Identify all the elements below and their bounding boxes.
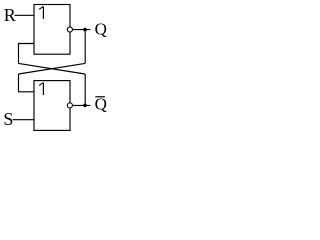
wire crossover diagonal Q to U2 input [19,63,86,74]
svg-text:Q: Q [95,19,107,38]
svg-text:Q: Q [95,95,107,114]
Q-bar overline [95,96,105,98]
node QB junction dot [83,104,87,108]
gate U2 label "1" [39,83,43,96]
node Q junction dot [83,28,87,32]
output bubble U2 [67,103,72,108]
NAND gate U2 (bottom) body [34,81,70,131]
gate U1 label "1" [39,6,43,19]
wire U1 output to Q [73,29,91,31]
wire down-left to U2 upper input [19,74,35,92]
wire S to U2 lower input [13,119,34,121]
NAND gate U1 (top) body [34,5,70,55]
wire node Q down to crossover [84,30,86,64]
wire U1 lower input (from node QB) [19,44,35,64]
output bubble U1 [67,27,72,32]
wire down-right from crossover to node QB [84,74,86,105]
wire R to U1 upper input [15,14,35,16]
wire crossover diagonal QB to U1 input [19,63,86,74]
wire U2 output to QB [73,104,91,106]
svg-text:S: S [3,109,13,129]
background [0,0,119,139]
svg-text:R: R [4,5,16,25]
